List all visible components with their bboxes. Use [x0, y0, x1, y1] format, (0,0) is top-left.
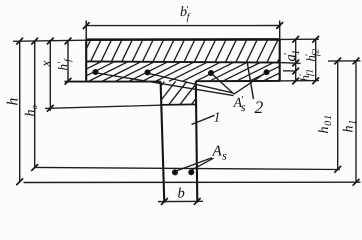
svg-text:2: 2: [255, 97, 264, 117]
interface level extension segment at far right: [328, 60, 361, 62]
compression zone bottom line in web: [161, 103, 196, 106]
beam bottom edge extension line full width: [24, 181, 361, 183]
dimension line h1: [355, 61, 357, 182]
svg-text:x: x: [38, 61, 53, 68]
leader line from bar 2 to A-s-prime label: [150, 74, 233, 93]
dimension line h-f-prime (flange depth): [67, 41, 69, 81]
flange bottom edge left of web with h-f extension: [65, 81, 161, 83]
leader line for label 1 (web/rib): [192, 115, 215, 124]
compression reinforcement bar dot 1: [93, 69, 99, 75]
hatching of lower flange layer: [86, 61, 280, 81]
web right edge: [196, 81, 198, 202]
web left edge: [161, 82, 165, 203]
dimension line h-f2-prime: [315, 39, 317, 80]
dimension line b-f-prime across top: [86, 25, 280, 27]
flange right edge with b-f extension above: [279, 21, 281, 40]
steel level extension dash to a-1-prime line: [283, 70, 296, 72]
tension reinforcement bar dot right: [188, 169, 194, 175]
flange bottom edge right of web with extension to dimension lines: [196, 80, 280, 82]
compression reinforcement bar dot 3: [208, 70, 214, 76]
leader line for label 2 (interface line): [247, 63, 253, 99]
svg-text:h: h: [5, 98, 22, 106]
top extension line at left: [13, 40, 86, 41]
dimension line h0 (effective depth): [34, 41, 36, 167]
hatching of new top flange layer: [86, 39, 280, 62]
compression zone extension line to x dimension: [45, 105, 161, 108]
flange interface line between old and new concrete layers: [86, 61, 280, 62]
leader line from As label to right tension bar: [192, 158, 213, 169]
compression reinforcement bar dot 2: [145, 69, 151, 75]
leader line from bar 4 to A-s-prime label: [234, 74, 265, 95]
interface extension line to right with end tick: [280, 62, 301, 65]
hatching of compressed web zone: [161, 81, 196, 105]
flange top edge: [86, 38, 280, 41]
leader line from As label to left tension bar: [177, 158, 212, 171]
flange top extension to right dimension lines: [280, 38, 319, 40]
svg-text:1: 1: [214, 111, 221, 126]
leader line from bar 1 to A-s-prime label: [97, 73, 234, 96]
leader line from bar 3 to A-s-prime label: [212, 74, 234, 94]
dimension line x (compression zone depth): [49, 41, 51, 111]
tension steel level extension line full width: [35, 167, 340, 169]
svg-text:b: b: [178, 186, 185, 202]
flange left edge with b-f extension above: [85, 21, 87, 40]
dimension line a-1-prime / h-f1-prime: [295, 39, 297, 81]
dimension line b under web: [158, 200, 203, 202]
compression reinforcement bar dot 4: [264, 69, 270, 75]
tension reinforcement bar dot left: [172, 169, 178, 175]
dimension line h01: [337, 61, 339, 169]
dimension line h (full height) at far left: [19, 41, 21, 182]
